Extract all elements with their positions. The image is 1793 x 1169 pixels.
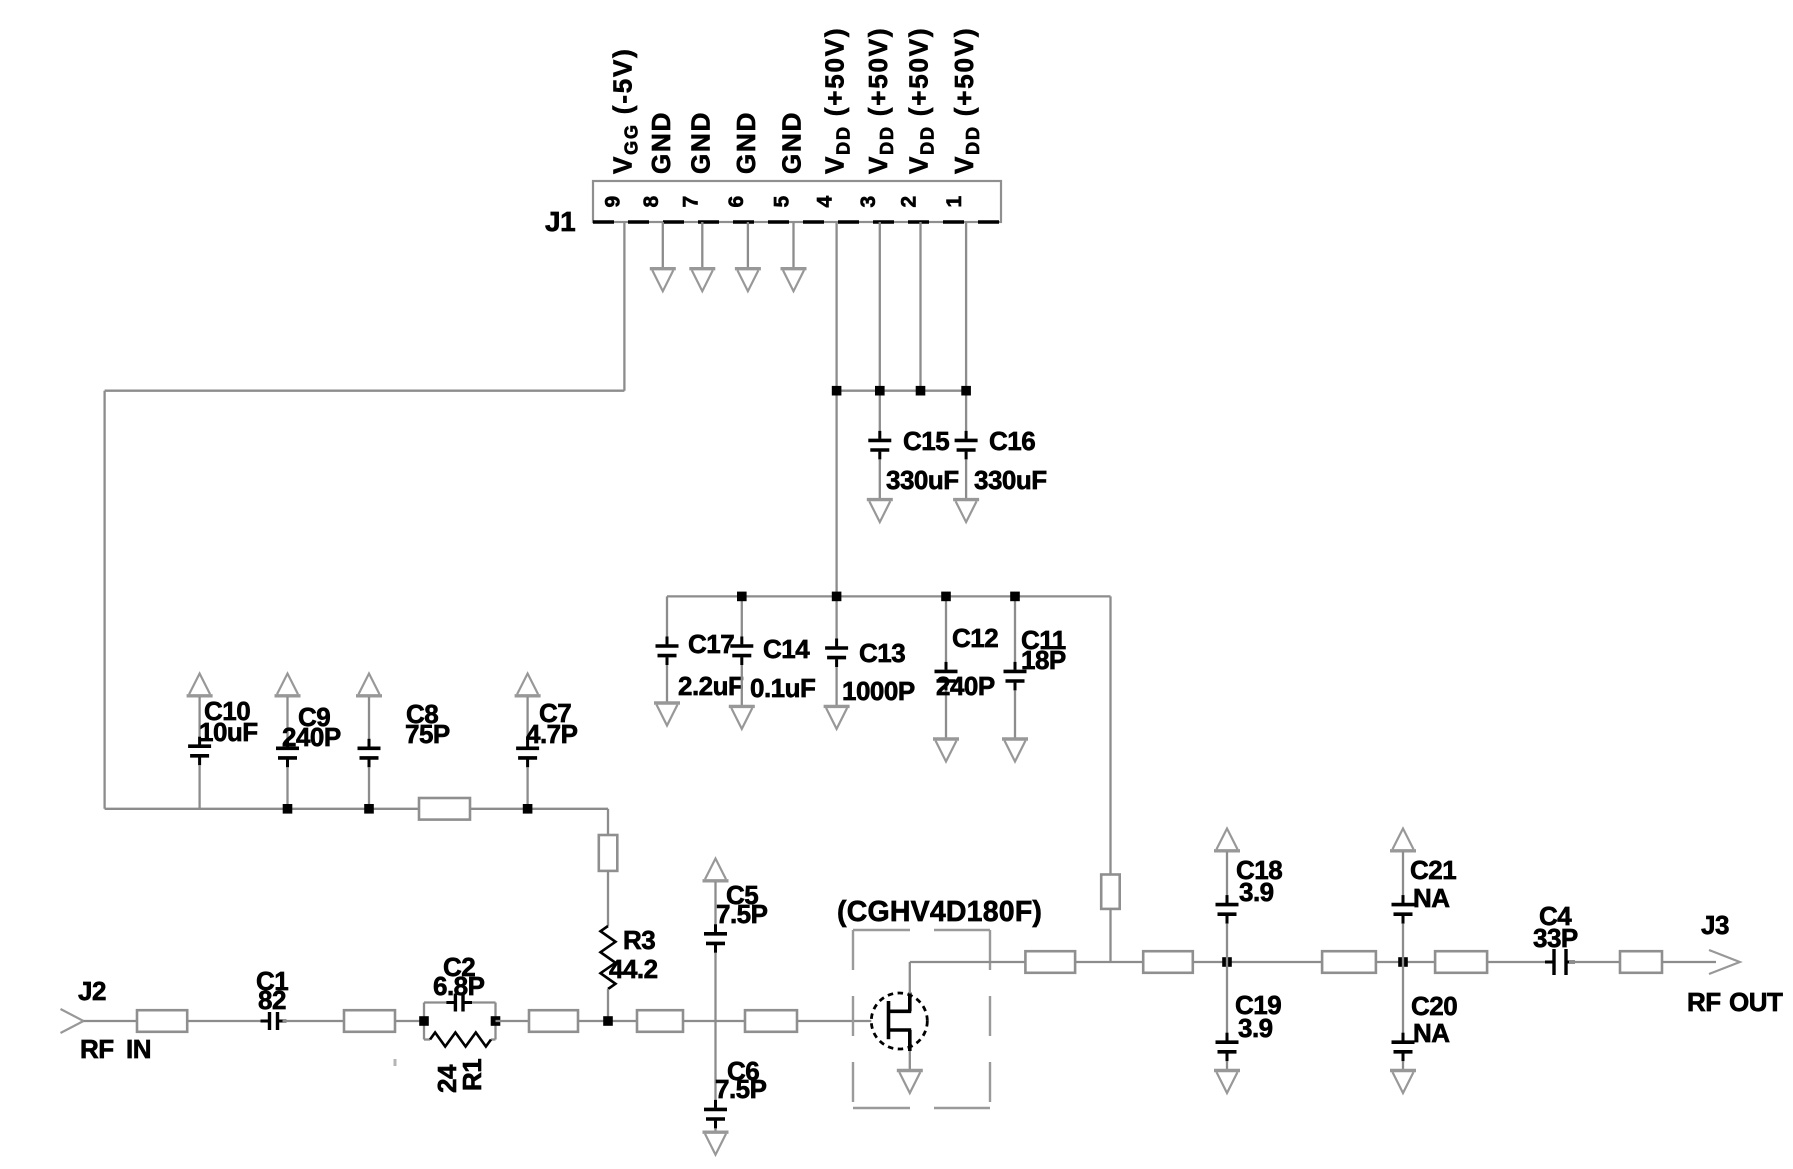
svg-text:J2: J2 bbox=[78, 976, 106, 1006]
svg-text:1: 1 bbox=[943, 196, 966, 208]
svg-text:5: 5 bbox=[771, 196, 794, 208]
resistor line element bbox=[137, 1010, 187, 1032]
wire bottom branch right bbox=[491, 1038, 496, 1040]
resistor line element bbox=[1435, 951, 1487, 973]
resistor line element bbox=[637, 1010, 683, 1032]
resistor line element bbox=[529, 1010, 578, 1032]
capacitor C18 bbox=[1214, 829, 1240, 851]
resistor line element bbox=[1025, 951, 1075, 973]
capacitor C15 bbox=[868, 431, 891, 460]
resistor line element bbox=[745, 1010, 797, 1032]
svg-text:4: 4 bbox=[814, 196, 837, 208]
wire bias down to R3 bbox=[607, 809, 609, 835]
connector J1 bbox=[593, 181, 1001, 222]
wire bbox=[496, 1020, 530, 1022]
wire left bus bbox=[105, 808, 419, 810]
resistor R1 bbox=[430, 1033, 491, 1047]
ground bbox=[953, 500, 979, 522]
wire pin gnd stub bbox=[747, 222, 749, 268]
resistor line element bbox=[1322, 951, 1376, 973]
transistor Q1 symbol bbox=[871, 993, 927, 1052]
node block left bbox=[419, 1016, 429, 1026]
svg-text:330uF: 330uF bbox=[974, 465, 1047, 495]
wire bbox=[1569, 961, 1620, 963]
wire source bbox=[909, 1051, 911, 1070]
wire bias feed down bbox=[1109, 596, 1111, 874]
capacitor C14 bbox=[741, 596, 743, 637]
svg-text:18P: 18P bbox=[1021, 645, 1066, 675]
svg-text:6.8P: 6.8P bbox=[433, 971, 485, 1001]
wire drain right bbox=[910, 961, 1026, 963]
ground bbox=[654, 703, 680, 726]
svg-text:2.2uF: 2.2uF bbox=[678, 671, 743, 701]
svg-text:J1: J1 bbox=[545, 206, 575, 237]
svg-text:C12: C12 bbox=[952, 623, 998, 653]
svg-text:1000P: 1000P bbox=[842, 676, 915, 706]
resistor line element bbox=[419, 798, 470, 820]
svg-text:NA: NA bbox=[1413, 1018, 1450, 1048]
wire pin9 down bbox=[623, 222, 625, 391]
svg-text:VDD (+50V): VDD (+50V) bbox=[949, 27, 983, 174]
wire gate bbox=[797, 1020, 871, 1022]
svg-text:7.5P: 7.5P bbox=[716, 899, 768, 929]
svg-text:RF: RF bbox=[80, 1034, 114, 1064]
wire bbox=[1487, 961, 1551, 963]
wire pin gnd stub bbox=[701, 222, 703, 268]
ground bbox=[781, 269, 807, 292]
wire pin4 down bbox=[835, 222, 837, 596]
node C18/C19 junction bbox=[1222, 957, 1232, 967]
node C21/C20 junction bbox=[1398, 957, 1408, 967]
svg-text:(CGHV4D180F): (CGHV4D180F) bbox=[837, 896, 1042, 928]
node C8 junction bbox=[364, 804, 374, 814]
svg-text:GND: GND bbox=[777, 111, 807, 174]
wire pin3 down bbox=[879, 222, 881, 432]
svg-text:R3: R3 bbox=[623, 925, 655, 955]
capacitor C6 bbox=[704, 1100, 727, 1129]
capacitor C19 bbox=[1226, 962, 1228, 1033]
svg-text:10uF: 10uF bbox=[199, 717, 258, 747]
svg-text:33P: 33P bbox=[1533, 923, 1578, 953]
node C12 junction bbox=[941, 592, 951, 602]
wire parallel block left leg bbox=[423, 1003, 425, 1040]
wire bbox=[395, 1020, 424, 1022]
node block right bbox=[491, 1016, 501, 1026]
resistor line element bbox=[344, 1010, 395, 1032]
svg-text:VGG (-5V): VGG (-5V) bbox=[607, 47, 641, 174]
wire top branch left bbox=[424, 1001, 448, 1003]
svg-text:330uF: 330uF bbox=[886, 465, 959, 495]
svg-text:240P: 240P bbox=[282, 722, 341, 752]
node R3 junction bbox=[603, 1016, 613, 1026]
ground bbox=[1390, 1071, 1416, 1094]
svg-text:VDD (+50V): VDD (+50V) bbox=[904, 27, 938, 174]
ground bbox=[729, 706, 755, 729]
wire pin2 down bbox=[919, 222, 921, 391]
capacitor C10 bbox=[187, 674, 213, 696]
svg-text:75P: 75P bbox=[405, 719, 450, 749]
wire left bus right part bbox=[470, 808, 608, 810]
ground bbox=[650, 269, 676, 292]
svg-text:VDD (+50V): VDD (+50V) bbox=[820, 27, 854, 174]
svg-text:C17: C17 bbox=[688, 629, 734, 659]
ground bbox=[824, 706, 850, 729]
svg-text:VDD (+50V): VDD (+50V) bbox=[863, 27, 897, 174]
svg-text:C21: C21 bbox=[1410, 855, 1456, 885]
node pin1 junction bbox=[961, 386, 971, 396]
wire pin9 jog left bbox=[105, 390, 625, 392]
node C7 junction bbox=[523, 804, 533, 814]
capacitor C21 bbox=[1390, 829, 1416, 851]
svg-text:OUT: OUT bbox=[1729, 987, 1783, 1017]
capacitor C9 bbox=[275, 674, 301, 696]
svg-text:6: 6 bbox=[725, 196, 748, 207]
wire bbox=[1075, 961, 1143, 963]
artifact tick bbox=[394, 1059, 397, 1066]
resistor line element bbox=[1620, 951, 1662, 973]
node pin4 junction bbox=[832, 386, 842, 396]
capacitor C5 bbox=[703, 859, 729, 881]
capacitor C12 bbox=[945, 596, 947, 662]
ground bbox=[897, 1071, 923, 1094]
wire left rail down bbox=[103, 391, 105, 809]
svg-text:2: 2 bbox=[898, 196, 921, 207]
ground bbox=[735, 269, 761, 292]
capacitor C13 bbox=[835, 596, 837, 639]
wire bbox=[578, 1020, 637, 1022]
wire bbox=[187, 1020, 264, 1022]
node pin3 junction bbox=[875, 386, 885, 396]
svg-text:GND: GND bbox=[646, 111, 676, 174]
ground bbox=[689, 269, 715, 292]
svg-text:GND: GND bbox=[731, 111, 761, 174]
svg-text:C13: C13 bbox=[859, 638, 905, 668]
svg-text:3.9: 3.9 bbox=[1239, 877, 1274, 907]
capacitor C2 bbox=[446, 994, 472, 1012]
capacitor C7 bbox=[515, 674, 541, 696]
svg-text:RF: RF bbox=[1687, 987, 1721, 1017]
node pin2 junction bbox=[916, 386, 926, 396]
svg-text:9: 9 bbox=[601, 196, 624, 207]
svg-text:NA: NA bbox=[1413, 883, 1450, 913]
capacitor C1 bbox=[261, 1012, 287, 1030]
capacitor C16 bbox=[955, 431, 978, 460]
svg-text:82: 82 bbox=[258, 985, 286, 1015]
wire VDD bus bbox=[837, 390, 967, 392]
connector J2 bbox=[61, 1009, 84, 1033]
ground bbox=[1002, 739, 1028, 762]
wire bbox=[1376, 961, 1435, 963]
svg-text:44.2: 44.2 bbox=[609, 954, 658, 984]
svg-text:3: 3 bbox=[857, 196, 880, 207]
svg-text:0.1uF: 0.1uF bbox=[750, 673, 815, 703]
svg-text:R1: R1 bbox=[457, 1059, 487, 1091]
wire bottom branch left bbox=[424, 1038, 430, 1040]
ground bbox=[703, 1132, 729, 1155]
wire drain up bbox=[909, 962, 911, 994]
connector J3 bbox=[1709, 950, 1740, 974]
resistor R3 bbox=[601, 926, 616, 989]
svg-text:3.9: 3.9 bbox=[1238, 1013, 1273, 1043]
ground bbox=[1214, 1071, 1240, 1094]
svg-text:8: 8 bbox=[640, 196, 663, 208]
wire bbox=[683, 1020, 745, 1022]
capacitor C20 bbox=[1402, 962, 1404, 1033]
capacitor C8 bbox=[356, 674, 382, 696]
svg-text:240P: 240P bbox=[936, 671, 995, 701]
ground bbox=[867, 500, 893, 522]
svg-text:4.7P: 4.7P bbox=[526, 719, 578, 749]
wire top branch right bbox=[471, 1001, 496, 1003]
svg-text:C16: C16 bbox=[989, 426, 1035, 456]
resistor line element bbox=[599, 835, 618, 871]
wire bbox=[1662, 961, 1716, 963]
node C14 junction bbox=[737, 592, 747, 602]
ground bbox=[933, 739, 959, 762]
wire pin1 down bbox=[965, 222, 967, 432]
wire bbox=[84, 1020, 138, 1022]
svg-text:C15: C15 bbox=[903, 426, 949, 456]
wire pin gnd stub bbox=[662, 222, 664, 268]
transistor U1 (CGHV4D180F) dashed outline bbox=[853, 930, 990, 1108]
svg-text:J3: J3 bbox=[1701, 910, 1729, 940]
svg-text:C20: C20 bbox=[1411, 991, 1457, 1021]
capacitor C17 bbox=[666, 596, 668, 637]
resistor feed element bbox=[1101, 875, 1120, 909]
svg-text:IN: IN bbox=[126, 1034, 151, 1064]
capacitor C4 bbox=[1545, 949, 1575, 975]
wire pin gnd stub bbox=[792, 222, 794, 268]
wire parallel block right leg bbox=[494, 1003, 496, 1040]
svg-text:C14: C14 bbox=[763, 634, 810, 664]
svg-text:7.5P: 7.5P bbox=[715, 1074, 767, 1104]
wire bbox=[283, 1020, 345, 1022]
svg-text:GND: GND bbox=[685, 111, 715, 174]
capacitor C11 bbox=[1014, 596, 1016, 662]
node C13 junction bbox=[832, 592, 842, 602]
wire bbox=[1193, 961, 1322, 963]
resistor line element bbox=[1143, 951, 1193, 973]
svg-text:7: 7 bbox=[679, 196, 702, 207]
wire feed to drain line bbox=[1109, 909, 1111, 962]
wire decoupling bus bbox=[667, 595, 1111, 597]
node C11 junction bbox=[1010, 592, 1020, 602]
node C9 junction bbox=[283, 804, 293, 814]
